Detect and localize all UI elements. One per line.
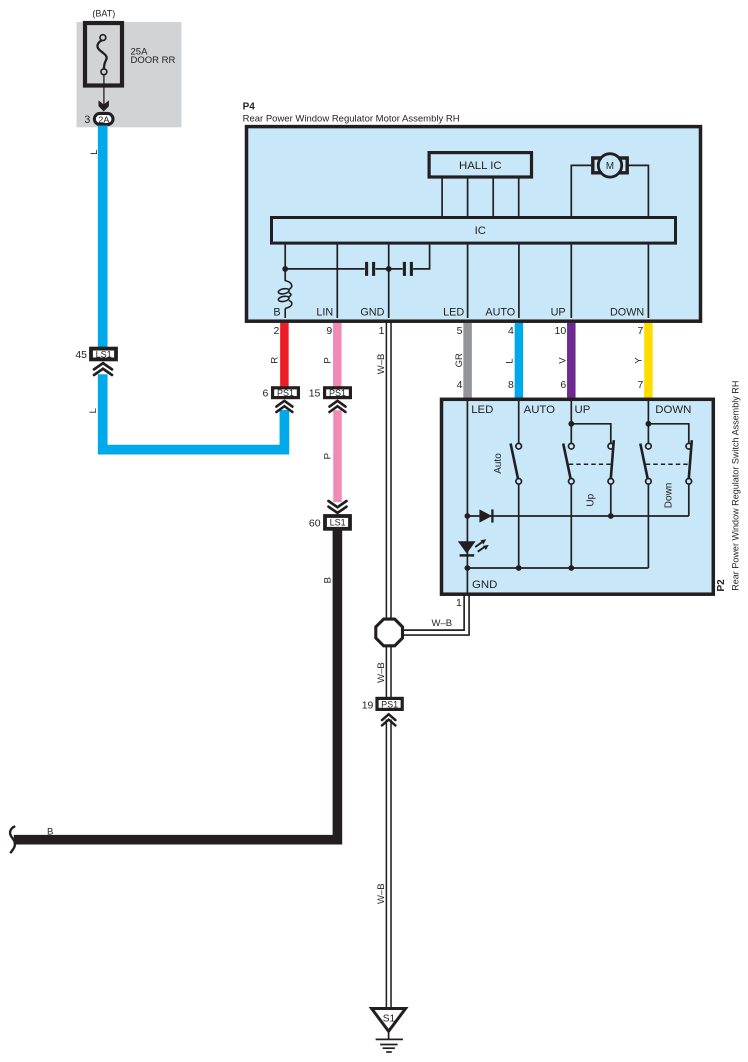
wire down branch to pole 2 [648,424,688,444]
motor M [593,154,627,177]
svg-text:6: 6 [263,388,269,400]
wire motor right to IC [627,165,648,217]
wire break squiggle [10,826,15,853]
wire P (pink) PS1-15 to LS1-60 [333,410,342,502]
P4 box Rear Power Window Regulator Motor Assembly RH [247,127,701,322]
chevron PS1-19 [382,714,395,725]
node down branch junction [646,421,652,427]
svg-text:W–B: W–B [376,883,387,904]
svg-text:6: 6 [560,379,566,391]
svg-text:DOWN: DOWN [610,306,644,318]
svg-text:Up: Up [586,493,597,506]
chevron PS1-15 [330,401,346,412]
wire L (blue) LS1-45 to PS1-6 [103,374,285,449]
wire motor left to IC [571,165,593,217]
svg-text:GND: GND [360,306,384,318]
wire pin LED [467,243,469,318]
inductor coil pin B [278,281,292,318]
svg-text:1: 1 [456,597,462,609]
wire up branch to pole 2 [571,424,611,444]
svg-text:DOWN: DOWN [655,404,691,416]
svg-text:Rear Power Window Regulator Mo: Rear Power Window Regulator Motor Assemb… [243,114,460,125]
wire LED pin to GND pin [466,399,468,594]
wire W-B P2 GND pin1 to junction [401,594,467,633]
wire V (violet) P4 pin10 to P2 pin6 [567,323,576,398]
wire pin LIN [336,243,338,318]
svg-text:LED: LED [443,306,464,318]
svg-text:4: 4 [508,325,514,337]
svg-text:45: 45 [75,349,87,361]
svg-text:B: B [47,827,53,838]
svg-text:B: B [322,577,333,583]
wire W-B P4 pin1 to junction [386,322,392,622]
svg-text:UP: UP [575,404,591,416]
node junction B/cap [282,266,288,272]
wire L (blue) P4 pin4 to P2 pin8 [515,323,524,398]
svg-text:2A: 2A [98,114,110,125]
svg-text:7: 7 [637,379,643,391]
svg-text:UP: UP [551,306,566,318]
svg-text:15: 15 [309,388,321,400]
connector PS1 pin19 [377,698,402,709]
fuse 25A DOOR RR [85,23,122,86]
wire W-B PS1-19 to ground S1 [386,720,392,1010]
svg-text:GND: GND [472,579,497,591]
svg-text:R: R [269,357,280,364]
svg-text:LS1: LS1 [330,518,346,528]
svg-text:19: 19 [362,699,374,711]
wire HALL IC pins to IC [441,178,443,217]
svg-text:10: 10 [555,325,567,337]
wire cap line left segment [285,268,365,270]
svg-text:V: V [557,357,568,364]
svg-text:1: 1 [379,325,385,337]
svg-text:3: 3 [84,114,90,126]
connector PS1 pin6 [273,388,299,398]
svg-text:Down: Down [663,483,674,509]
svg-text:8: 8 [508,379,514,391]
node LED/diode junction [465,513,471,519]
connector oval 2A [94,113,113,124]
wire B (black) LS1-60 down and left [14,530,338,840]
ground bus wire [467,567,648,569]
LED lamp symbol [458,539,489,555]
wire pin DOWN [647,243,649,318]
svg-text:9: 9 [326,325,332,337]
svg-text:P4: P4 [243,102,256,113]
wire GR (gray) P4 pin5 to P2 pin4 [463,323,472,398]
chevron PS1-6 [276,401,292,412]
switch Up pole 2 [608,440,614,516]
node bus/up junction [568,565,574,571]
junction octagon [376,619,403,646]
wire pin AUTO [518,243,520,318]
svg-text:HALL IC: HALL IC [459,160,502,172]
wire pin GND [388,243,390,318]
svg-text:AUTO: AUTO [524,404,556,416]
svg-text:P: P [322,357,333,363]
svg-text:4: 4 [457,379,463,391]
svg-text:L: L [89,150,100,155]
wire L (blue) fuse to LS1-45 [98,126,108,348]
dashed link Down switch [646,463,690,465]
diode branch wire [467,515,688,517]
svg-text:LIN: LIN [316,306,333,318]
svg-text:B: B [273,306,280,318]
svg-text:(BAT): (BAT) [92,8,115,18]
svg-text:L: L [88,408,99,413]
chevron LS1-45 [94,363,112,375]
connector LS1 pin45 [91,349,116,360]
wire pin B branch [284,243,286,281]
capacitor C1 [365,262,368,276]
svg-text:LS1: LS1 [96,349,112,359]
ground symbol [376,1031,403,1052]
node up branch junction [568,421,574,427]
svg-text:S1: S1 [383,1014,396,1025]
ground S1 [372,1009,406,1032]
node bus/auto junction [516,565,522,571]
wire R (red) P4 pin2 to PS1-6 [280,323,289,387]
switch Up pole 1 [563,399,574,569]
svg-text:DOOR RR: DOOR RR [131,55,176,66]
svg-text:Y: Y [634,357,645,364]
svg-text:PS1: PS1 [329,388,346,398]
svg-text:LED: LED [471,404,493,416]
P2 box Rear Power Window Regulator Switch Assembly RH [442,399,714,594]
svg-text:GR: GR [454,353,465,367]
svg-text:AUTO: AUTO [485,306,515,318]
switch Auto [511,399,522,569]
chevron LS1-60 (down) [329,501,347,513]
arrow into connector [99,100,109,111]
svg-text:Rear Power Window Regulator Sw: Rear Power Window Regulator Switch Assem… [730,381,740,591]
wire cap line right segment to IC [413,243,429,269]
node junction GND/cap [386,266,392,272]
svg-text:P: P [323,453,334,459]
node diode line / up switch junction [608,513,614,519]
HALL IC box [429,153,531,177]
svg-text:L: L [504,359,515,364]
svg-text:60: 60 [309,518,321,530]
svg-text:5: 5 [457,325,463,337]
wire pin UP [570,243,572,318]
switch Down pole 2 [686,440,692,516]
svg-text:7: 7 [637,325,643,337]
svg-text:PS1: PS1 [381,699,398,709]
wire fuse to connector 2A [103,75,105,105]
svg-text:M: M [606,161,614,172]
switch Down pole 1 [640,399,651,569]
diode D1 [479,509,492,522]
svg-text:2: 2 [273,325,279,337]
wire W-B junction to PS1-19 [386,644,392,698]
svg-text:P2: P2 [716,579,727,592]
wire cap line mid segment [375,268,402,270]
svg-text:W–B: W–B [376,354,387,375]
wire P (pink) P4 pin9 to PS1-15 [333,323,342,387]
connector LS1 pin60 [325,516,350,529]
dashed link Up switch [569,463,612,465]
node LED/bus junction [465,565,471,571]
svg-text:W–B: W–B [432,618,453,629]
connector PS1 pin15 [325,388,351,398]
IC box [272,218,676,244]
svg-text:Auto: Auto [493,453,504,474]
svg-text:PS1: PS1 [277,388,294,398]
svg-text:W–B: W–B [376,662,387,683]
wire Y (yellow) P4 pin7 to P2 pin7 [644,323,653,398]
fuse block background [77,22,182,127]
svg-text:IC: IC [475,225,486,237]
capacitor C2 [403,262,406,276]
